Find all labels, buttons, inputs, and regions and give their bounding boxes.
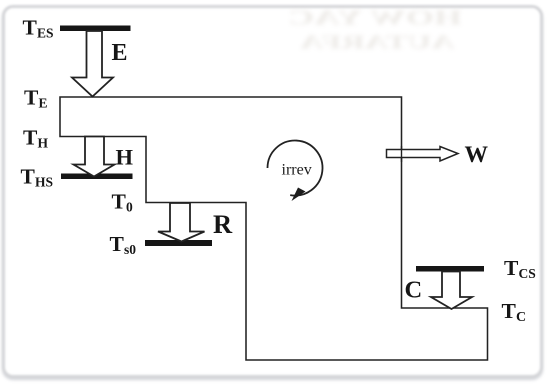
svg-text:C: C bbox=[405, 277, 423, 304]
svg-text:T: T bbox=[110, 232, 125, 256]
svg-text:H: H bbox=[38, 136, 49, 151]
svg-text:HOW YAC: HOW YAC bbox=[288, 6, 462, 30]
svg-text:s0: s0 bbox=[124, 242, 136, 257]
svg-text:irrev: irrev bbox=[282, 162, 312, 179]
svg-text:ES: ES bbox=[37, 26, 54, 41]
svg-text:E: E bbox=[39, 96, 48, 111]
svg-text:T: T bbox=[23, 16, 38, 40]
svg-text:T: T bbox=[23, 126, 38, 150]
svg-text:H: H bbox=[116, 145, 134, 170]
svg-text:T: T bbox=[502, 299, 517, 323]
svg-text:AUTARFA: AUTARFA bbox=[299, 32, 455, 54]
svg-text:T: T bbox=[112, 190, 127, 214]
svg-text:R: R bbox=[213, 209, 233, 239]
svg-text:C: C bbox=[516, 310, 526, 325]
svg-text:0: 0 bbox=[126, 200, 133, 215]
svg-text:HS: HS bbox=[35, 174, 53, 189]
svg-text:E: E bbox=[112, 40, 128, 66]
svg-text:T: T bbox=[504, 256, 519, 280]
svg-text:T: T bbox=[24, 86, 39, 110]
svg-text:W: W bbox=[465, 142, 489, 168]
svg-text:CS: CS bbox=[519, 266, 536, 281]
svg-text:T: T bbox=[21, 165, 36, 189]
